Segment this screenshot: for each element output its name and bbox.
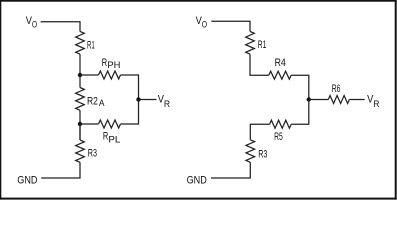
resistor RPL [99, 120, 121, 128]
svg-text:GND: GND [17, 175, 37, 187]
wire VO to R1 (right) [211, 21, 250, 31]
svg-text:GND: GND [187, 175, 207, 187]
svg-text:R4: R4 [275, 57, 286, 69]
wire R1 to node A [79, 54, 81, 75]
svg-text:R2: R2 [87, 95, 98, 107]
svg-text:PL: PL [108, 134, 120, 144]
wire node VR to VR label (left) [139, 99, 157, 101]
wire node A to RPH [80, 74, 99, 76]
node junction dot (right) [307, 97, 311, 101]
wire R3 to GND (right) [211, 162, 250, 178]
node A junction dot [78, 73, 82, 77]
wire R5 to R3 corner (right) [250, 124, 269, 140]
wire node down to R5 [291, 100, 309, 125]
resistor R1 (right) [246, 31, 255, 54]
wire RPH to bend down to node VR [121, 75, 139, 100]
node VR junction dot (left) [136, 97, 140, 101]
svg-text:R1: R1 [258, 39, 267, 51]
svg-text:R: R [164, 99, 171, 109]
wire R1 to R4 corner [250, 54, 269, 75]
resistor RPH [99, 71, 121, 79]
svg-text:R1: R1 [87, 39, 95, 51]
svg-text:R5: R5 [274, 131, 283, 143]
wire R4 to bend down to node (right) [291, 75, 309, 99]
svg-text:R6: R6 [332, 83, 341, 95]
svg-text:A: A [99, 98, 105, 108]
wire node B to RPL [80, 123, 99, 125]
wire node to R6 [309, 99, 329, 101]
svg-text:R3: R3 [88, 148, 97, 160]
wire R6 to VR label (right) [349, 99, 364, 101]
wire VO to R1 (left) [41, 22, 80, 32]
svg-text:PH: PH [107, 60, 120, 70]
border frame [0, 0, 397, 2]
resistor R2A [79, 75, 81, 88]
svg-text:O: O [202, 20, 207, 30]
svg-text:R3: R3 [258, 148, 267, 160]
resistor R1 (left) [76, 31, 85, 54]
wire RPL to bend up to node VR [121, 100, 139, 125]
resistor R3 (right) [246, 140, 255, 163]
node B junction dot [78, 122, 82, 126]
wire R2A to node B [79, 110, 81, 140]
resistor R3 (left) [79, 124, 81, 140]
svg-text:O: O [32, 20, 37, 30]
svg-text:R: R [373, 99, 380, 109]
resistor R5 [270, 120, 292, 128]
resistor R6 [328, 96, 349, 104]
resistor R4 [269, 71, 291, 79]
wire R3 to GND (left) [41, 162, 80, 178]
